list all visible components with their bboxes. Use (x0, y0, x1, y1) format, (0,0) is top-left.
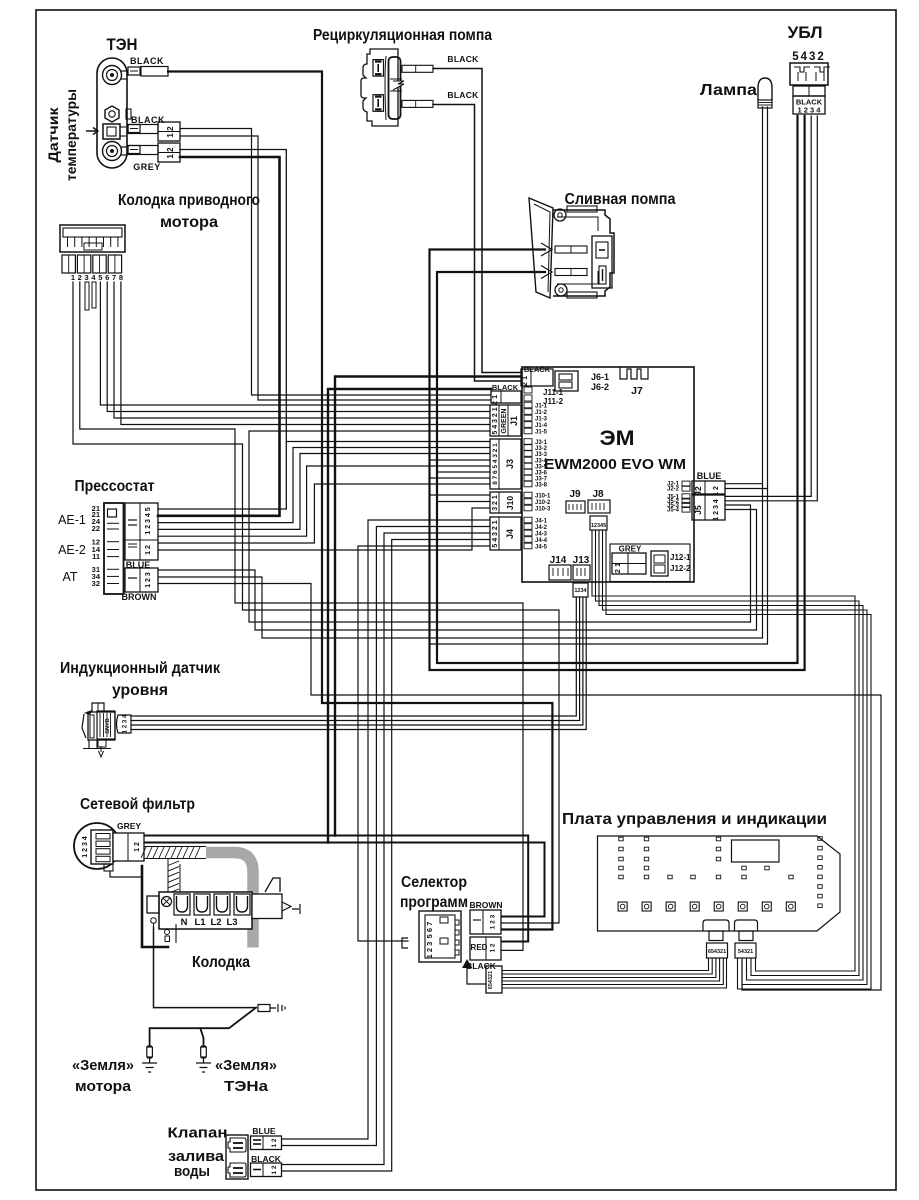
connector J4 (490, 517, 521, 550)
wire valve BLACK 1 to J4 (282, 533, 490, 1165)
wire lamp wire 1 via AT (158, 107, 763, 638)
svg-text:Датчик: Датчик (45, 106, 61, 162)
wire valve BLACK 2 to J4 (282, 540, 490, 1172)
wire J10 stub 2 (437, 501, 490, 503)
svg-text:BLUE: BLUE (252, 1126, 275, 1136)
svg-text:AE-2: AE-2 (58, 543, 86, 557)
ground symbol motor (72, 1046, 157, 1095)
wire selector BLACK wire 2 (502, 958, 712, 974)
svg-text:J6-1: J6-1 (591, 372, 609, 382)
wire selector BLACK wire 4 (502, 958, 720, 981)
mains filter (74, 796, 195, 871)
drain pump terminal 2 (555, 269, 587, 276)
svg-text:6: 6 (105, 273, 109, 282)
svg-text:GREY: GREY (619, 545, 642, 554)
svg-text:Прессостат: Прессостат (75, 478, 155, 495)
connector J1 (490, 405, 521, 436)
svg-text:1 2: 1 2 (271, 1138, 278, 1147)
svg-text:J12-2: J12-2 (670, 564, 691, 573)
svg-text:1 2: 1 2 (166, 126, 175, 138)
svg-text:J10-3: J10-3 (535, 507, 551, 513)
wire selector BLACK wire 1 (502, 958, 709, 971)
svg-text:BROWN: BROWN (469, 900, 502, 910)
svg-text:2 1: 2 1 (490, 395, 499, 405)
svg-text:11: 11 (92, 552, 100, 561)
svg-text:J4: J4 (505, 529, 515, 539)
connector J10 (490, 492, 521, 513)
wire J2 stub 2 (725, 488, 768, 490)
wire pressure switch AE-2 pin 14 to J10 (158, 508, 490, 550)
svg-text:BROWN: BROWN (122, 592, 157, 602)
wire selector BLACK wire 6 (502, 958, 727, 988)
wire motor pin 1 to selector BROWN pin 2 (73, 282, 559, 923)
svg-text:GREY: GREY (117, 821, 141, 831)
connector J3 (490, 439, 521, 489)
wire selector BLACK wire 5 (502, 958, 723, 985)
svg-text:1 2 3: 1 2 3 (490, 914, 497, 929)
svg-text:GREEN: GREEN (501, 409, 508, 434)
wire recirculation pump 1 to module (433, 69, 521, 373)
selector BLACK connector (462, 959, 502, 993)
svg-text:BLACK: BLACK (131, 115, 165, 125)
svg-text:воды: воды (174, 1163, 210, 1180)
svg-text:J1-5: J1-5 (535, 430, 548, 436)
svg-text:J5-4: J5-4 (667, 508, 680, 514)
svg-text:«Земля»: «Земля» (215, 1057, 277, 1074)
wire motor pin 6 to J1 (107, 282, 490, 412)
wire J8 wire 1 to board connector (592, 530, 855, 971)
wire door lock pin 4 to J5 (725, 116, 817, 501)
wire selector BLACK wire 3 (502, 958, 716, 978)
wire J3 pin 4 to pressure switch (158, 466, 490, 536)
svg-text:GREY: GREY (133, 162, 161, 172)
svg-text:«Земля»: «Земля» (72, 1057, 134, 1074)
wire valve BLUE 2 to J4 (282, 527, 490, 1146)
heater top BLACK terminal (128, 56, 168, 76)
wire motor pin 8 to J1 (121, 282, 490, 425)
svg-text:J3-8: J3-8 (535, 483, 548, 489)
svg-text:J3: J3 (505, 459, 515, 469)
svg-text:5 4 3 2 1: 5 4 3 2 1 (492, 407, 499, 434)
connectors J14 and J13 (549, 555, 590, 597)
svg-text:Индукционный датчик: Индукционный датчик (60, 660, 220, 677)
svg-text:Клапан: Клапан (168, 1125, 228, 1142)
svg-text:BLUE: BLUE (697, 471, 722, 481)
svg-text:AE-1: AE-1 (58, 513, 86, 527)
wire J8 wire 3 to board connector (599, 530, 863, 980)
wire temp sensor 2 to module J11 (180, 136, 491, 400)
svg-text:J2-2: J2-2 (667, 487, 680, 493)
svg-text:2 1: 2 1 (613, 563, 622, 573)
svg-text:программ: программ (400, 894, 468, 911)
svg-text:J4-1: J4-1 (535, 519, 548, 525)
module BLACK second connector (490, 383, 521, 405)
wire heater GREY 1 to pressure switch (158, 150, 286, 510)
svg-text:J10-1: J10-1 (535, 494, 551, 500)
wire J3 pin 8 link (286, 441, 490, 443)
connector J6 (555, 371, 609, 392)
svg-text:мотора: мотора (160, 214, 218, 231)
wire J2 stub 1 (725, 483, 763, 485)
svg-text:12345: 12345 (591, 523, 606, 529)
svg-text:7: 7 (112, 273, 116, 282)
svg-text:5 6 7: 5 6 7 (425, 922, 434, 939)
wire J8 wire 4 to board connector (603, 530, 868, 985)
connectors J9 and J8 (566, 489, 610, 545)
svg-text:BLACK: BLACK (447, 90, 479, 100)
svg-text:мотора: мотора (75, 1078, 132, 1095)
board button washers (618, 902, 795, 911)
svg-text:J4-5: J4-5 (535, 545, 548, 551)
svg-text:Сетевой фильтр: Сетевой фильтр (80, 796, 195, 813)
svg-text:Колодка приводного: Колодка приводного (118, 192, 260, 209)
svg-text:J4-2: J4-2 (535, 525, 548, 531)
wire motor pin 7 to J1 (114, 282, 490, 418)
svg-text:ЭМ: ЭМ (600, 427, 635, 450)
svg-text:Рециркуляционная помпа: Рециркуляционная помпа (313, 27, 492, 44)
grey mains cable ribbon (144, 847, 253, 948)
svg-text:654321: 654321 (708, 949, 726, 955)
svg-text:J3-3: J3-3 (535, 452, 548, 458)
wire mains filter 2 to selector BROWN pin 1 (145, 843, 545, 917)
wire temp sensor 1 to module J11 (180, 129, 491, 396)
svg-text:УБЛ: УБЛ (788, 24, 823, 42)
svg-text:32: 32 (92, 579, 100, 588)
induction level sensor (60, 660, 220, 757)
pump terminal tabs (402, 65, 433, 72)
wire J1 pin 5 to J5 pin 3 (249, 431, 751, 622)
wire J3 stub C (430, 477, 491, 479)
wire recirculation pump 2 to module (433, 105, 521, 382)
svg-text:J10-2: J10-2 (535, 500, 551, 506)
svg-text:1 2 3 4: 1 2 3 4 (123, 714, 129, 733)
svg-text:1 2: 1 2 (145, 545, 152, 555)
board solder pads (619, 837, 822, 908)
wire lamp wire 2 (430, 107, 768, 644)
wire pressure switch AT pin 31 to J5 pin 4 (158, 510, 757, 631)
filter cable to terminal block (110, 866, 168, 947)
svg-text:1 2 3: 1 2 3 (145, 572, 152, 588)
recirculation pump (313, 27, 492, 126)
wire door lock pin 2 to drain pump (430, 116, 805, 670)
module pin combs J1 J3 J10 J4 (524, 402, 551, 550)
selector BROWN connector (469, 900, 502, 934)
svg-text:ТЭН: ТЭН (107, 36, 138, 54)
wire J8 wire 5 to board connector (606, 530, 871, 989)
wire J4 pin 5 to selector (358, 546, 490, 941)
wire module BLACK power 2 (328, 389, 491, 843)
drain pump terminal 1 (555, 246, 587, 253)
connector J2 (692, 471, 725, 496)
arrow to terminal 1 (541, 243, 552, 256)
wire valve BLUE 1 to J4 (282, 520, 490, 1139)
svg-text:J1: J1 (509, 416, 519, 426)
wire level sensor 2 to J13 (131, 597, 580, 721)
svg-text:Лампа: Лампа (700, 82, 757, 99)
lamp (700, 78, 772, 108)
svg-text:5432: 5432 (792, 51, 826, 63)
door lock UBL connector (788, 24, 831, 115)
svg-text:уровня: уровня (112, 682, 168, 699)
pressure switch (Prescostat) (58, 478, 158, 602)
wire motor pin 2 to selector RED pin 2 (80, 282, 523, 950)
connector J5 (692, 495, 725, 521)
svg-text:J4-4: J4-4 (535, 538, 548, 544)
wire door lock pin 3 to J5 (725, 116, 811, 496)
svg-text:SNYB: SNYB (105, 718, 111, 733)
svg-text:J2: J2 (693, 486, 703, 496)
svg-text:L3: L3 (226, 917, 237, 928)
svg-text:1 2 3 4: 1 2 3 4 (82, 836, 89, 858)
svg-text:Колодка: Колодка (192, 954, 250, 971)
wire J8 wire 2 to board connector (596, 530, 860, 976)
svg-text:N: N (181, 917, 188, 928)
wire level sensor 4 to J13 (131, 597, 586, 730)
arrow to terminal 2 (541, 266, 552, 279)
svg-text:22: 22 (92, 524, 100, 533)
heater TEN body (97, 36, 138, 168)
wire J3 stub B (437, 471, 490, 473)
svg-text:8 7 6 5 4 3 2 1: 8 7 6 5 4 3 2 1 (492, 443, 499, 485)
module pin comb J11 (524, 387, 564, 406)
wire mains filter 1 to selector RED pin 1 (145, 836, 528, 942)
ground symbol heater (196, 1046, 277, 1095)
svg-text:J13: J13 (573, 555, 590, 566)
wire J3 pin 7 to pressure switch (158, 448, 490, 523)
svg-text:J5: J5 (693, 505, 703, 515)
svg-text:1 2 3 4 5: 1 2 3 4 5 (145, 507, 152, 534)
svg-text:3: 3 (85, 273, 89, 282)
svg-text:J9: J9 (569, 489, 581, 500)
svg-text:1 2: 1 2 (271, 1165, 278, 1174)
svg-text:2 1: 2 1 (520, 376, 529, 386)
terminal block Kolodka (147, 878, 300, 971)
temperature sensor label (45, 89, 98, 181)
svg-text:ТЭНа: ТЭНа (224, 1078, 269, 1095)
connector J12 GREY (610, 544, 691, 582)
svg-text:BLACK: BLACK (130, 56, 164, 66)
svg-text:1 2 3 4: 1 2 3 4 (713, 499, 720, 521)
svg-text:5: 5 (98, 273, 102, 282)
heater GREY 1-2 connector (128, 143, 180, 172)
selector RED connector (466, 937, 501, 971)
svg-text:AT: AT (62, 570, 77, 584)
svg-text:J4-3: J4-3 (535, 532, 548, 538)
svg-text:J14: J14 (550, 555, 567, 566)
ground wires (150, 928, 285, 1046)
svg-text:температуры: температуры (63, 89, 79, 181)
drain pump (529, 191, 676, 298)
wire module BLACK power 1 (335, 377, 521, 836)
display and control board (562, 811, 840, 931)
wire door lock pin 1 to drain pump (437, 116, 798, 663)
svg-text:L1: L1 (194, 917, 206, 928)
board bottom tab connectors (703, 920, 758, 958)
svg-text:8: 8 (119, 273, 123, 282)
svg-text:J12-1: J12-1 (670, 553, 691, 562)
wire selector to BLACK connector (467, 966, 486, 984)
svg-text:J1-3: J1-3 (535, 417, 548, 423)
program selector (400, 874, 468, 962)
wire J3 pin 6 to pressure switch (158, 454, 490, 530)
svg-text:2: 2 (78, 273, 82, 282)
wire J3 stub A (430, 459, 491, 461)
svg-text:Сливная помпа: Сливная помпа (565, 191, 676, 208)
svg-text:1 2 3 4: 1 2 3 4 (798, 106, 822, 115)
svg-text:1234: 1234 (574, 588, 587, 594)
svg-text:BLACK: BLACK (447, 54, 479, 64)
svg-text:J10: J10 (505, 496, 515, 510)
svg-text:654321: 654321 (488, 971, 494, 989)
water inlet valve (168, 1125, 282, 1181)
svg-text:1: 1 (71, 273, 75, 282)
wire heater line to selector BROWN pin 3 (168, 72, 552, 930)
module right pin comb (667, 481, 690, 513)
heater BLACK 1-2 connector (128, 115, 180, 141)
svg-text:J1-1: J1-1 (535, 404, 548, 410)
connector J7 (620, 367, 648, 397)
wire pressure switch AT pin 32 to board connector (158, 584, 881, 991)
svg-text:J1-2: J1-2 (535, 410, 548, 416)
svg-text:3 2 1: 3 2 1 (492, 495, 499, 511)
wire level sensor 3 to J13 (131, 597, 583, 725)
svg-text:1 2: 1 2 (166, 147, 175, 159)
svg-text:J7: J7 (631, 385, 643, 397)
svg-text:J8: J8 (592, 489, 604, 500)
control module EM EWM2000 (522, 367, 694, 582)
wire J10 stub 1 (430, 494, 491, 496)
wire motor pin 5 to J1 (100, 282, 490, 405)
hatched cable segment (141, 847, 200, 900)
svg-text:RED: RED (471, 943, 488, 952)
svg-text:Селектор: Селектор (401, 874, 467, 891)
wire J3 pin 1 to pressure switch (158, 484, 490, 543)
svg-text:L2: L2 (210, 917, 221, 928)
svg-text:1 2: 1 2 (490, 943, 497, 952)
svg-text:1 2: 1 2 (134, 842, 141, 852)
svg-text:1 2 3: 1 2 3 (425, 942, 434, 959)
drive motor connector block (60, 192, 260, 310)
svg-text:J11-1: J11-1 (543, 388, 564, 397)
wire level sensor 1 to J13 (131, 597, 576, 716)
svg-text:54321: 54321 (738, 949, 753, 955)
block earth bolts (151, 918, 157, 924)
module BLACK top connector (520, 365, 553, 386)
svg-text:5 4 3 2 1: 5 4 3 2 1 (492, 520, 499, 547)
svg-text:EWM2000 EVO WM: EWM2000 EVO WM (544, 457, 686, 473)
svg-text:Плата управления и индикации: Плата управления и индикации (562, 811, 827, 828)
svg-text:J6-2: J6-2 (591, 382, 609, 392)
svg-text:J1-4: J1-4 (535, 423, 548, 429)
wire heater GREY 2 to pressure switch (158, 157, 280, 516)
